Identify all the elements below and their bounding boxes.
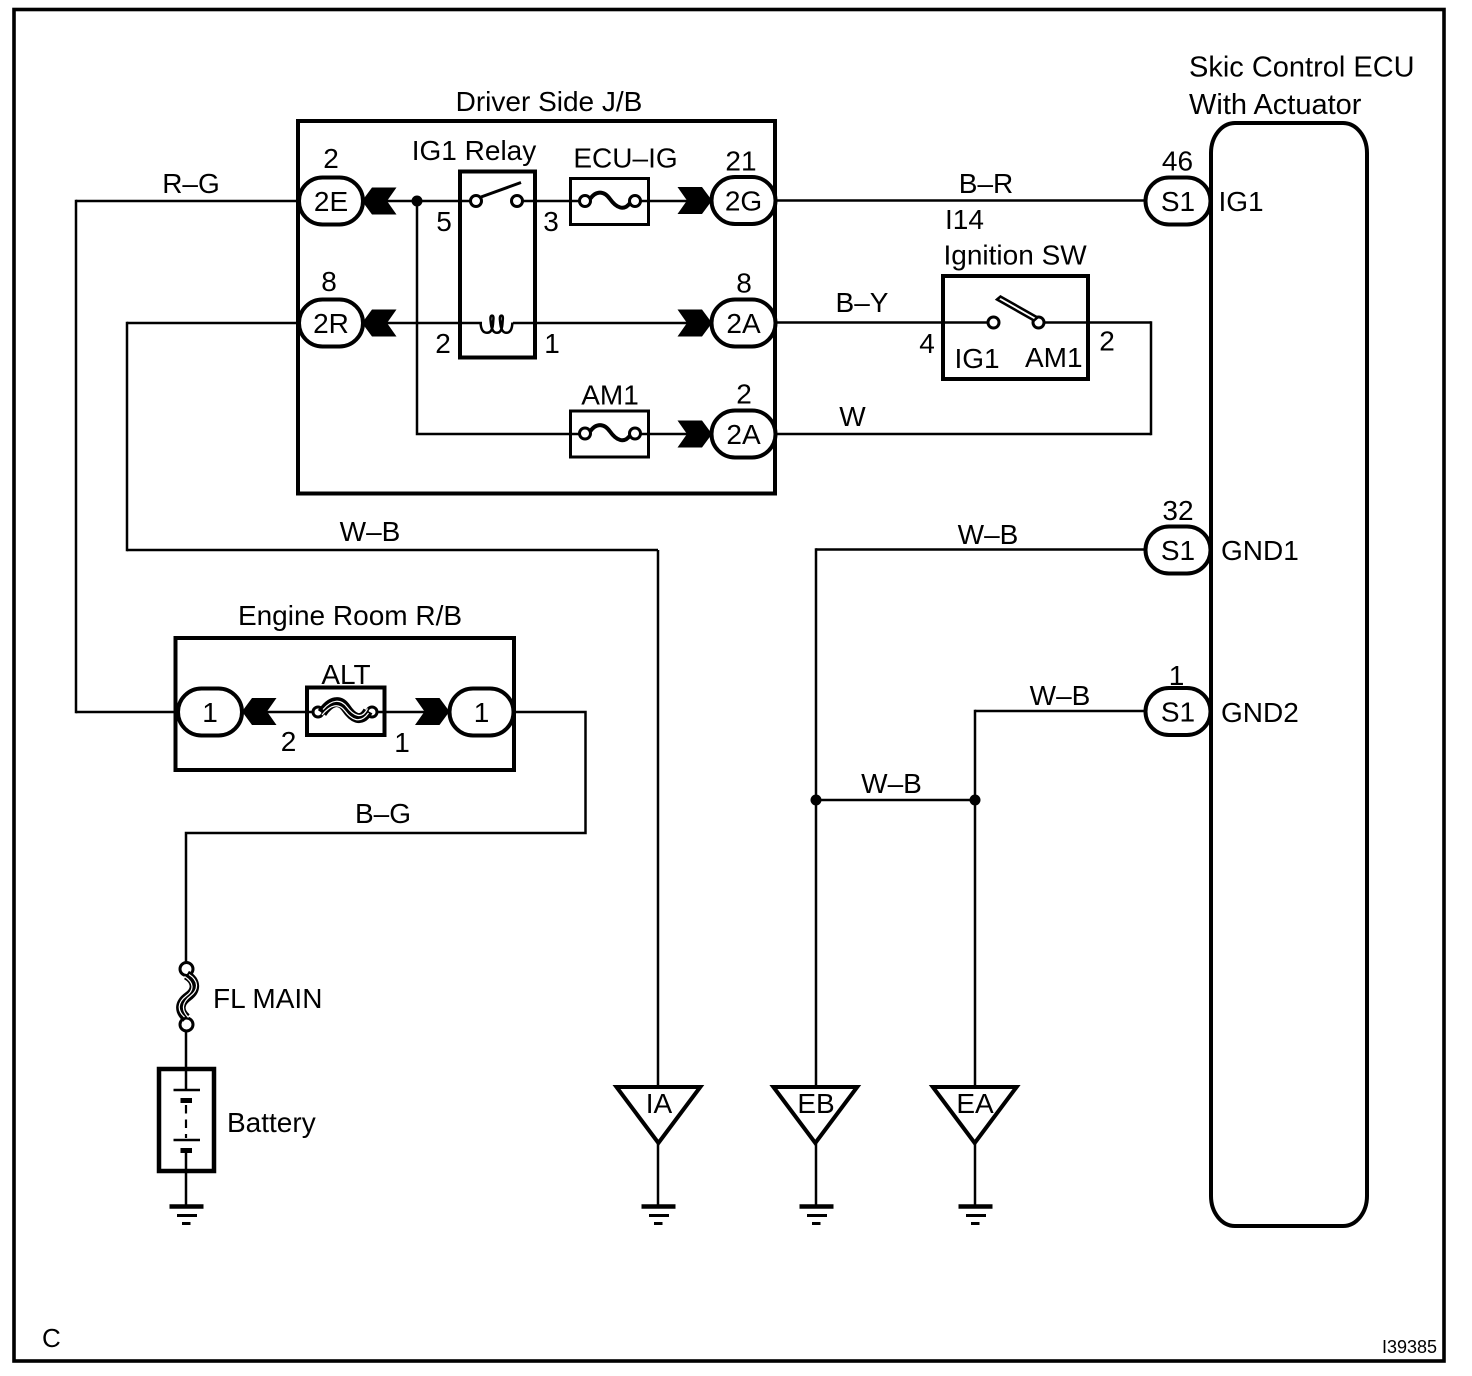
- svg-text:GND1: GND1: [1221, 535, 1299, 566]
- svg-text:2: 2: [281, 726, 297, 757]
- svg-text:2: 2: [435, 328, 451, 359]
- svg-text:Driver Side J/B: Driver Side J/B: [456, 86, 643, 117]
- svg-text:GND2: GND2: [1221, 697, 1299, 728]
- wire B-R from 2G to ECU: [775, 199, 1147, 202]
- wire battery to ground: [185, 1171, 188, 1205]
- connector 2A pin 8: [712, 300, 776, 347]
- wire W-B horizontal: [127, 549, 658, 552]
- wire EA to ground: [974, 1143, 977, 1205]
- arrow into connector 1 left: [242, 698, 277, 725]
- svg-text:IG1: IG1: [955, 343, 1000, 374]
- svg-text:2E: 2E: [314, 186, 348, 217]
- svg-text:S1: S1: [1161, 535, 1195, 566]
- wire GND1 down to EB: [815, 548, 818, 1088]
- wire ECU-IG fuse to 2G: [639, 200, 713, 203]
- wire W-B from GND1: [816, 548, 1147, 551]
- svg-text:32: 32: [1162, 495, 1193, 526]
- ground connector EA: [933, 1087, 1017, 1143]
- junction dot at 2E feed: [412, 196, 423, 207]
- svg-text:2A: 2A: [726, 308, 761, 339]
- svg-text:W–B: W–B: [958, 519, 1019, 550]
- svg-text:W–B: W–B: [861, 768, 922, 799]
- wire inside R/B right: [372, 711, 450, 714]
- svg-text:IG1 Relay: IG1 Relay: [412, 135, 537, 166]
- ground connector EB: [773, 1087, 857, 1143]
- wire ignition AM1 down: [1150, 321, 1153, 435]
- wire relay pin 3 to ECU-IG fuse: [520, 200, 581, 203]
- junction box Driver Side J/B: [298, 86, 775, 494]
- fusible link ALT: [307, 659, 385, 735]
- svg-text:R–G: R–G: [162, 168, 220, 199]
- svg-text:Engine Room R/B: Engine Room R/B: [238, 600, 462, 631]
- svg-text:1: 1: [394, 727, 410, 758]
- wire AM1 fuse to 2A pin 2: [639, 433, 713, 436]
- svg-text:IA: IA: [646, 1088, 673, 1119]
- svg-text:2: 2: [323, 143, 339, 174]
- wire B-Y from 2A to ignition switch: [775, 321, 989, 324]
- svg-text:With Actuator: With Actuator: [1189, 89, 1362, 121]
- wire junction down to AM1 fuse: [417, 201, 581, 434]
- svg-text:EB: EB: [797, 1088, 834, 1119]
- svg-text:1: 1: [474, 697, 490, 728]
- svg-text:3: 3: [543, 206, 559, 237]
- svg-text:46: 46: [1162, 146, 1193, 177]
- svg-text:2A: 2A: [726, 419, 761, 450]
- connector 2G: [712, 177, 776, 224]
- wire B-G path: [186, 712, 586, 963]
- svg-text:2R: 2R: [313, 308, 349, 339]
- svg-text:2G: 2G: [725, 186, 762, 217]
- fuse ECU-IG: [571, 143, 678, 225]
- fusible link FL MAIN: [179, 963, 322, 1032]
- connector S1 pin 32: [1146, 527, 1211, 574]
- arrow into connector 1 right: [415, 698, 450, 725]
- junction dot GND1 jumper: [811, 795, 822, 806]
- wire R-G horizontal to 2E: [76, 200, 299, 203]
- wire W-B down to IA: [657, 550, 660, 1088]
- svg-text:ECU–IG: ECU–IG: [573, 143, 677, 174]
- svg-text:B–R: B–R: [959, 168, 1013, 199]
- wire IA to ground: [657, 1143, 660, 1205]
- svg-text:I39385: I39385: [1382, 1337, 1437, 1357]
- svg-text:ALT: ALT: [321, 659, 370, 690]
- svg-text:Battery: Battery: [227, 1107, 316, 1138]
- wire GND2 down to EA: [974, 710, 977, 1088]
- connector S1 pin 1: [1146, 688, 1211, 735]
- arrow into 2R: [362, 310, 397, 337]
- wire 2R to relay coil: [362, 322, 482, 325]
- svg-text:Ignition SW: Ignition SW: [944, 240, 1088, 271]
- svg-text:4: 4: [919, 328, 935, 359]
- wire EB to ground: [815, 1143, 818, 1205]
- ignition switch I14 Ignition SW: [943, 240, 1088, 380]
- svg-text:W–B: W–B: [1030, 680, 1091, 711]
- svg-text:1: 1: [202, 697, 218, 728]
- ECU block Skic Control ECU With Actuator: [1189, 52, 1415, 1227]
- svg-text:B–G: B–G: [355, 798, 411, 829]
- connector 2A pin 2: [712, 411, 776, 458]
- connector 2R: [299, 300, 363, 347]
- arrow into 2E: [362, 188, 397, 215]
- svg-text:Skic Control ECU: Skic Control ECU: [1189, 52, 1415, 84]
- svg-text:1: 1: [1169, 660, 1185, 691]
- wire FL MAIN to battery: [185, 1031, 188, 1070]
- svg-text:AM1: AM1: [1025, 342, 1083, 373]
- junction dot GND2 jumper: [970, 795, 981, 806]
- svg-text:S1: S1: [1161, 186, 1195, 217]
- svg-text:W–B: W–B: [340, 516, 401, 547]
- arrow into 2A pin 8: [678, 310, 713, 337]
- wire 2R to the left: [127, 322, 299, 325]
- svg-text:2: 2: [1099, 326, 1115, 357]
- svg-text:B–Y: B–Y: [836, 287, 889, 318]
- connector S1 pin 46: [1146, 178, 1211, 225]
- svg-text:I14: I14: [945, 204, 984, 235]
- ground connector IA: [617, 1087, 701, 1143]
- arrow into 2G: [678, 187, 713, 214]
- wire W-B from GND2: [975, 710, 1147, 713]
- svg-text:EA: EA: [956, 1088, 994, 1119]
- svg-text:1: 1: [544, 328, 560, 359]
- svg-text:21: 21: [725, 146, 756, 177]
- relay block Engine Room R/B: [176, 600, 515, 770]
- svg-text:2: 2: [736, 379, 752, 410]
- battery: [159, 1069, 316, 1171]
- wire W-B jumper: [816, 799, 975, 802]
- arrow into 2A pin 2: [678, 421, 713, 448]
- wire relay coil to 2A: [513, 322, 713, 325]
- wire R-G vertical: [75, 200, 78, 714]
- fuse AM1: [571, 380, 649, 458]
- relay IG1 Relay: [412, 135, 537, 358]
- svg-text:IG1: IG1: [1219, 186, 1264, 217]
- wire ignition AM1 to corner: [1043, 321, 1151, 324]
- ground under EB: [800, 1207, 834, 1224]
- connector 1 left: [178, 689, 242, 736]
- svg-text:C: C: [42, 1323, 61, 1353]
- wire 2E to relay pin 5: [362, 200, 472, 203]
- wire W to 2A: [775, 433, 1151, 436]
- wire inside R/B left: [242, 711, 318, 714]
- connector 1 right: [450, 689, 514, 736]
- ground under battery: [170, 1207, 204, 1224]
- svg-text:AM1: AM1: [581, 380, 639, 411]
- wire R-G to Engine Room R/B: [76, 711, 180, 714]
- wire W-B vertical from 2R: [126, 322, 129, 552]
- svg-text:S1: S1: [1161, 697, 1195, 728]
- svg-text:8: 8: [736, 268, 752, 299]
- svg-text:W: W: [839, 401, 866, 432]
- ground under IA: [642, 1207, 676, 1224]
- svg-text:5: 5: [436, 206, 452, 237]
- svg-text:8: 8: [321, 266, 337, 297]
- ground under EA: [959, 1207, 993, 1224]
- svg-text:FL MAIN: FL MAIN: [213, 983, 322, 1014]
- connector 2E: [299, 178, 363, 225]
